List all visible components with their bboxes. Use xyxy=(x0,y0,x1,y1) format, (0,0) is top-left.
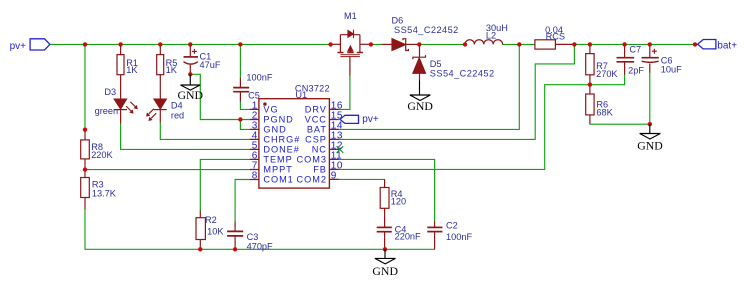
resistor R2 xyxy=(196,211,205,250)
svg-text:470pF: 470pF xyxy=(247,242,273,252)
wire FB pin10 to divider xyxy=(338,85,624,170)
svg-text:MPPT: MPPT xyxy=(263,165,292,175)
wire C6 bottom vertical xyxy=(649,73,651,125)
junction at bat+ port xyxy=(693,42,697,46)
M1 body diode xyxy=(348,30,354,37)
ground symbol below C4 xyxy=(375,249,396,264)
resistor R6 xyxy=(586,85,594,125)
svg-text:GND: GND xyxy=(407,99,433,113)
svg-text:TEMP: TEMP xyxy=(263,155,292,165)
wire D4 cathode down xyxy=(159,123,161,140)
D3 emission arrows xyxy=(130,102,135,107)
resistor R5 xyxy=(157,44,164,99)
svg-text:47uF: 47uF xyxy=(200,60,221,70)
svg-text:pv+: pv+ xyxy=(10,41,27,52)
svg-text:2pF: 2pF xyxy=(628,66,644,76)
resistor R7 xyxy=(586,44,594,84)
svg-text:D5: D5 xyxy=(430,59,442,69)
junction at M1 drain xyxy=(369,42,373,46)
M1 gate plate and lead xyxy=(340,55,360,57)
junction at L2 left xyxy=(463,42,467,46)
svg-text:C7: C7 xyxy=(629,45,641,55)
junction PGND pin2 xyxy=(238,117,242,121)
junction at D5/D6 node xyxy=(417,42,421,46)
D4 emission arrows xyxy=(149,109,154,114)
svg-text:COM2: COM2 xyxy=(297,175,327,185)
wire pin2 PGND stub xyxy=(240,119,250,121)
svg-text:100nF: 100nF xyxy=(446,232,472,242)
transistor M1 (P-MOSFET) xyxy=(331,30,371,76)
svg-text:68K: 68K xyxy=(596,108,613,118)
svg-text:270K: 270K xyxy=(596,69,618,79)
svg-text:bat+: bat+ xyxy=(717,40,737,51)
capacitor C3 (470pF) xyxy=(227,222,243,250)
svg-text:BAT: BAT xyxy=(307,125,327,135)
svg-text:220K: 220K xyxy=(91,150,113,160)
LED D3 (green) xyxy=(114,99,137,123)
wire C5 bottom to pin1 VG xyxy=(240,102,250,110)
U1 pin-1 marker dot xyxy=(263,102,266,105)
hierarchical port pv+ (top left) xyxy=(30,39,50,50)
svg-text:220nF: 220nF xyxy=(395,232,421,242)
svg-text:C3: C3 xyxy=(247,232,259,242)
wire pv+ top rail left (port to M1) xyxy=(50,43,331,45)
wire M1 drain to D6 anode xyxy=(371,43,382,45)
svg-text:C5: C5 xyxy=(248,90,260,100)
wire RCS right to bat+ port xyxy=(574,43,697,45)
svg-text:1K: 1K xyxy=(126,65,138,75)
junction at R7 top xyxy=(588,42,592,46)
wire R3 bottom to ground rail xyxy=(84,209,86,249)
resistor R3 xyxy=(81,170,90,210)
inductor L2 (30uH) xyxy=(465,40,503,45)
svg-text:COM3: COM3 xyxy=(297,155,327,165)
ground symbol below C1 xyxy=(181,74,201,90)
junction R8/R3 MPPT node xyxy=(83,167,87,171)
junction top rail at R1 xyxy=(118,42,122,46)
capacitor C1 (polarized 47uF) xyxy=(184,46,199,74)
no-connect X on pin 12 NC xyxy=(337,146,344,153)
svg-text:pv+: pv+ xyxy=(362,114,379,125)
capacitor C5 (100nF) xyxy=(233,78,249,102)
svg-text:R2: R2 xyxy=(205,215,217,225)
M1 bulk arrow xyxy=(349,51,351,53)
junction top rail at C5 xyxy=(238,42,242,46)
wire L2 to RCS left xyxy=(503,43,535,45)
svg-text:CSP: CSP xyxy=(305,135,327,145)
LED D4 (red) xyxy=(146,99,166,122)
IC U1 CN3722 body xyxy=(259,99,330,188)
resistor R8 xyxy=(81,130,90,170)
wire bottom ground rail xyxy=(85,248,435,250)
svg-text:RCS: RCS xyxy=(546,31,565,41)
junction R7/R6 FB node xyxy=(588,82,592,86)
junction top rail at C1 xyxy=(188,42,192,46)
svg-text:red: red xyxy=(171,111,184,121)
svg-text:100nF: 100nF xyxy=(246,73,272,83)
svg-text:C2: C2 xyxy=(446,221,458,231)
junction C4 bottom / ground xyxy=(383,247,387,251)
svg-text:DONE#: DONE# xyxy=(263,145,299,155)
junction top rail at R5 xyxy=(158,42,162,46)
svg-text:13.7K: 13.7K xyxy=(92,188,117,198)
wire D3 cathode down xyxy=(120,124,122,150)
junction R8 top xyxy=(83,128,87,132)
svg-text:9: 9 xyxy=(331,171,337,182)
junction top rail at R8 xyxy=(83,42,87,46)
svg-text:VG: VG xyxy=(263,105,278,115)
svg-text:U1: U1 xyxy=(295,90,307,100)
svg-text:FB: FB xyxy=(313,165,327,175)
resistor R1 xyxy=(117,44,124,99)
svg-text:8: 8 xyxy=(252,171,258,182)
svg-text:NC: NC xyxy=(312,145,327,155)
svg-text:SS54_C22452: SS54_C22452 xyxy=(430,68,495,78)
M1 channel contacts xyxy=(337,52,363,54)
wire COM2 pin9 to R4 xyxy=(338,178,384,180)
junction at BAT sense left xyxy=(517,42,521,46)
svg-text:L2: L2 xyxy=(486,31,496,41)
svg-text:GND: GND xyxy=(263,125,286,135)
U1 left pin stubs 1-8 xyxy=(250,109,259,179)
svg-text:10uF: 10uF xyxy=(661,65,682,75)
junction at M1 source xyxy=(328,42,332,46)
capacitor C6 (polarized 10uF) xyxy=(642,44,659,72)
hierarchical port bat+ (top right) xyxy=(698,40,716,49)
wire C7 bottom to divider xyxy=(624,75,626,85)
ground symbol below C6/R6 xyxy=(640,124,661,139)
junction R2 bottom xyxy=(198,247,202,251)
svg-text:GND: GND xyxy=(372,264,398,278)
ground symbol below D5 xyxy=(410,81,430,101)
resistor R4 xyxy=(380,179,389,227)
wire C1 bottom to PGND xyxy=(190,74,240,119)
svg-text:green: green xyxy=(95,106,119,116)
wire COM3 pin11 to C2 xyxy=(338,159,434,221)
schottky diode D5 (SS54, to ground) xyxy=(413,44,426,80)
wire DRV pin16 to M1 gate xyxy=(338,76,350,110)
capacitor C7 (2pF) xyxy=(617,44,635,74)
wire D4 to pin4 CHRG# xyxy=(160,138,250,140)
capacitor C4 (220nF) xyxy=(377,227,392,249)
wire D6 cathode node to L2 xyxy=(419,43,465,45)
wire C5 column from rail xyxy=(239,44,241,77)
wire CSP pin13 horizontal xyxy=(338,138,535,140)
wire R6 bottom to C6 gnd node xyxy=(590,123,650,125)
wire D3 to pin5 DONE# xyxy=(121,148,251,150)
svg-text:120: 120 xyxy=(391,196,406,206)
svg-text:D3: D3 xyxy=(104,87,116,97)
junction at C7 top xyxy=(622,42,626,46)
wire TEMP pin6 to R2 xyxy=(200,159,250,210)
svg-text:DRV: DRV xyxy=(305,105,327,115)
junction C3 bottom xyxy=(233,247,237,251)
wire BAT node vertical at x=519 xyxy=(518,44,520,129)
svg-text:10K: 10K xyxy=(207,227,224,237)
wire pv+ rail down to R8 xyxy=(84,44,86,129)
wire R8/R3 node to pin7 MPPT xyxy=(85,169,250,171)
resistor RCS (0.04 shunt, horizontal) xyxy=(535,40,575,49)
junction R6/C6 ground node xyxy=(648,122,652,126)
svg-text:M1: M1 xyxy=(344,11,357,21)
svg-text:COM1: COM1 xyxy=(263,175,293,185)
C1 plus sign xyxy=(192,49,197,54)
wire COM1 pin8 to C3 xyxy=(235,180,250,222)
hierarchical port pv+ at VCC pin15 xyxy=(340,115,359,123)
svg-text:1K: 1K xyxy=(166,65,178,75)
C6 plus sign xyxy=(652,49,657,54)
wire BAT pin14 horizontal xyxy=(338,128,519,130)
capacitor C2 (100nF) xyxy=(427,222,442,250)
wire pin2 to pin3 GND tie xyxy=(240,120,250,130)
svg-text:CHRG#: CHRG# xyxy=(263,135,300,145)
svg-text:GND: GND xyxy=(637,138,663,152)
svg-text:SS54_C22452: SS54_C22452 xyxy=(394,25,459,35)
schottky diode D6 (SS54) xyxy=(382,39,420,51)
U1 right pin stubs 9-16 xyxy=(329,109,339,179)
wire CSP sense: down from RCS right xyxy=(535,44,574,139)
junction C1 bottom / ground xyxy=(188,72,192,76)
svg-text:D6: D6 xyxy=(392,16,404,26)
svg-text:PGND: PGND xyxy=(263,115,293,125)
junction at C6 top xyxy=(648,42,652,46)
svg-text:VCC: VCC xyxy=(305,115,327,125)
svg-text:GND: GND xyxy=(178,88,204,102)
junction at RCS right xyxy=(572,42,576,46)
